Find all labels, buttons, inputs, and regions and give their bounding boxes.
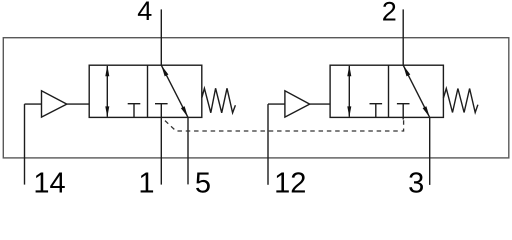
wire port 5 vertical — [187, 117, 189, 184]
valve V1 blocked port T (right square) — [155, 104, 168, 118]
wire pilot apex to valve body — [67, 103, 89, 105]
dashed pilot sensing line — [162, 118, 404, 131]
wire port 4 vertical — [160, 9, 162, 65]
valve V2 blocked port T (right square) — [397, 104, 410, 120]
valve V1 body — [89, 65, 202, 117]
wire port 2 vertical — [402, 9, 404, 65]
valve V2 flow arrow (left square, double-headed) — [347, 65, 351, 117]
svg-text:5: 5 — [195, 167, 211, 193]
svg-text:4: 4 — [137, 0, 152, 26]
wire pilot apex to valve body V2 — [310, 103, 330, 105]
wire port 14 vertical — [24, 104, 26, 185]
svg-text:3: 3 — [408, 167, 424, 193]
wire pilot 12 horizontal into triangle — [268, 103, 285, 105]
valve V2 divider — [388, 65, 390, 117]
svg-text:2: 2 — [382, 0, 397, 27]
valve V1 divider — [147, 65, 149, 117]
wire port 3 vertical — [429, 117, 431, 184]
svg-text:14: 14 — [33, 167, 65, 193]
svg-text:12: 12 — [274, 167, 306, 193]
wire port 12 vertical — [267, 104, 269, 185]
valve V1 pilot actuator triangle — [42, 91, 67, 117]
valve V1 return spring — [202, 88, 236, 113]
wire pilot 14 horizontal into triangle — [25, 103, 42, 105]
valve V2 body — [330, 65, 443, 117]
valve V1 diagonal flow arrow (right square) — [161, 65, 188, 117]
valve V2 diagonal flow arrow (right square) — [403, 65, 430, 117]
svg-text:1: 1 — [138, 167, 154, 193]
valve V2 blocked port T (left square) — [370, 104, 383, 118]
valve V1 flow arrow (left square, double-headed) — [105, 65, 109, 117]
valve V2 pilot actuator triangle — [285, 91, 310, 117]
valve V1 blocked port T (left square) — [128, 104, 141, 118]
wire port 1 vertical — [160, 117, 162, 184]
valve V2 return spring — [443, 89, 478, 113]
